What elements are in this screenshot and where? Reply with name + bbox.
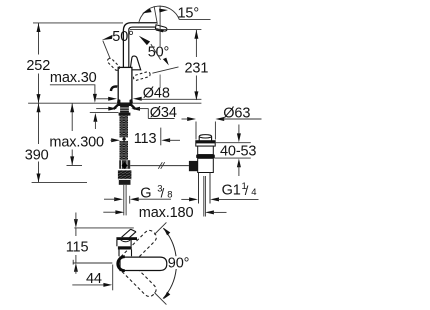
wire: outlet axis line segment (159, 75, 161, 89)
supply pipe G3/8 tail (124, 185, 126, 216)
arrowhead G114 pointing right at drain pipe left wall (189, 197, 198, 201)
svg-text:max.180: max.180 (139, 205, 194, 221)
arrowhead max180 right pointing left at drain pipe (205, 210, 214, 214)
wire: 231 top extension under spout outlet (130, 28, 201, 30)
wire: max300 bottom tick (67, 165, 83, 167)
wire: spout outer contour (123, 23, 157, 68)
wire: G114 underline (217, 198, 258, 200)
arrowhead 44 pointing right (103, 283, 112, 287)
wire: O63 extension lines (196, 122, 215, 140)
svg-text:max.30: max.30 (50, 70, 97, 86)
svg-text:Ø63: Ø63 (223, 105, 250, 121)
counter bottom line (90, 111, 119, 113)
spout tip / aerator (155, 25, 167, 31)
arrowhead at pipe left pointing right (114, 197, 123, 201)
svg-text:40-53: 40-53 (220, 143, 256, 159)
wire: 390 bottom extension line (32, 181, 87, 183)
arrowhead 50deg left (102, 35, 113, 40)
svg-text:252: 252 (26, 58, 50, 74)
lever handle solid (130, 56, 141, 70)
arrowhead max30 opposing up at counter bottom (93, 113, 97, 122)
drain tailpipe inner lines (204, 176, 206, 217)
arrowhead 252 top (37, 23, 41, 32)
dimension max.180 (103, 211, 117, 213)
wire: 113 extension tick (160, 128, 162, 146)
dashed lever right 50deg position (133, 71, 151, 81)
svg-text:4: 4 (251, 187, 256, 198)
svg-text:G1: G1 (222, 183, 241, 199)
wire: horizontal pop-up pull rod to drain (130, 165, 189, 167)
wire: O34 left arrow tail (96, 108, 110, 110)
plan handle: dome (117, 240, 131, 246)
arrowhead arc top (164, 228, 171, 236)
arrowhead G38 pointing left at pipe (130, 197, 139, 201)
drain side port for pull rod (189, 161, 198, 171)
arrowhead max300 bottom (70, 156, 74, 165)
wire: O34 label bracket vertical (147, 108, 149, 118)
wire: 252 top extension line (33, 22, 123, 24)
plan handle: lower black bar (118, 246, 132, 249)
wire: dashed spout axis extension bottom (154, 293, 166, 305)
pull rod break symbol (158, 162, 164, 169)
svg-text:44: 44 (86, 271, 102, 287)
wire: max30 leader underline and down bend (50, 85, 95, 95)
svg-text:50°: 50° (112, 29, 133, 45)
rod gap diamond (122, 137, 126, 141)
svg-text:90°: 90° (168, 255, 189, 271)
svg-text:113: 113 (134, 131, 157, 147)
threaded rod upper section (120, 116, 129, 138)
arrowhead O63 right (215, 117, 224, 121)
arrowhead 231 bottom (194, 91, 198, 100)
arrowhead 390 bottom (37, 174, 41, 183)
dimension 231 vertical line (195, 30, 197, 100)
escutcheon plate below base (118, 103, 132, 106)
wire: O48 underline extending to 231 (140, 98, 201, 100)
wire: spout inner contour (129, 27, 156, 67)
wire: 115 top extension from handle (74, 227, 134, 229)
svg-text:Ø48: Ø48 (143, 86, 170, 102)
arrowhead O63 left (187, 117, 196, 121)
arrowhead 50deg right lower (163, 58, 169, 66)
arrowhead 231 top (194, 30, 198, 39)
wire: short tick right of pipe (129, 196, 131, 204)
wire: max30 opposing arrow tail (94, 121, 96, 130)
faucet body (118, 67, 132, 103)
plan handle: base sides (119, 250, 132, 257)
dimension 113: right arrow pointing left at tick (161, 138, 170, 142)
arrowhead arc bottom (164, 292, 171, 300)
node: 15 deg vertical reference line (159, 6, 161, 47)
nut bottom flange (119, 113, 131, 116)
arrowhead 40-53 upper pointing down (237, 133, 241, 142)
svg-text:/: / (245, 183, 249, 198)
drain body (198, 158, 214, 172)
plan handle: lever diagonal (122, 229, 136, 240)
node: 15 deg tilted reference line (154, 6, 157, 24)
wire: 15 deg swivel arc (139, 6, 180, 23)
dashed spout upper 45deg (121, 228, 159, 266)
svg-text:8: 8 (167, 190, 172, 201)
drain o-ring seal band (196, 154, 215, 158)
spout tip dark underside (156, 29, 163, 31)
arrowhead max300 top (70, 103, 74, 112)
svg-text:15°: 15° (178, 6, 199, 22)
wire: leader 50deg left to dashed lever (103, 41, 111, 59)
drain flange with dark top (196, 141, 215, 146)
drain plug cap (199, 136, 211, 140)
faucet base flare feet (117, 99, 120, 104)
wire: dashed spout axis extension top (154, 222, 166, 234)
svg-text:115: 115 (66, 240, 89, 256)
wire: O63 underline below label (223, 118, 262, 120)
pop-up rod knob behind body (111, 86, 117, 91)
wire: G38 underline (137, 198, 171, 200)
label G1 1/4 with leader arrows (181, 198, 191, 200)
arrowhead G114 pointing left at drain pipe right wall (210, 197, 219, 201)
wire: leader from arc to 15 deg label (179, 19, 210, 21)
svg-text:max.300: max.300 (49, 135, 104, 151)
svg-text:231: 231 (185, 61, 209, 77)
wire: leader 50deg right upper (151, 44, 161, 60)
arrowhead 115 bottom pointing up (74, 263, 78, 272)
plan body left crescent dark (118, 257, 125, 271)
arrowhead 50deg right upper (139, 36, 150, 45)
svg-text:G: G (140, 186, 151, 202)
wire: 44 right extension vertical (112, 265, 114, 291)
arrowhead max180 left pointing right at faucet pipe (115, 210, 124, 214)
svg-text:/: / (161, 186, 165, 201)
plan spout barrel pointing right (120, 257, 167, 270)
horseshoe washer diagonal right (129, 103, 135, 109)
dimension 252 vertical line (38, 23, 40, 103)
wire: O34 label underline (148, 118, 174, 120)
drain tailpipe walls (199, 173, 211, 204)
arrowhead O34 left (108, 107, 117, 111)
svg-text:390: 390 (25, 147, 49, 163)
dimension max.300 vertical line (71, 103, 73, 165)
arrowhead 252 bottom (37, 94, 41, 103)
wire: small tick at left end (72, 260, 74, 265)
horseshoe washer diagonal left (114, 103, 120, 109)
arrowhead O34 right (131, 107, 140, 111)
drain neck (198, 146, 214, 155)
mounting nut dark block (120, 106, 129, 113)
dashed lever left 50deg position (106, 57, 120, 71)
arrowhead O48 left (108, 97, 117, 101)
threaded rod lower section (120, 141, 129, 160)
wire: 40-53 lower extension (214, 157, 251, 159)
90deg swivel arc lower segment (163, 269, 176, 299)
arrowhead 40-53 lower pointing up (237, 159, 241, 168)
supply hose connector blocks (118, 170, 131, 179)
arrowhead right of 15 deg gap (159, 9, 168, 13)
arrowhead O48 right (133, 97, 142, 101)
counter top line (28, 102, 201, 104)
wire: O48 dimension line left segment (96, 98, 110, 100)
dashed spout lower 45deg (120, 261, 158, 299)
arrowhead left of 15 deg gap (142, 9, 152, 14)
wire: 40-53 upper extension (215, 142, 251, 144)
dimension O63 line (182, 118, 191, 120)
arrowhead 115 top pointing down (74, 219, 78, 228)
arrowhead 390 top (37, 103, 41, 112)
dimension 390 vertical line (38, 103, 40, 182)
dimension 44 (72, 284, 104, 286)
wire: leader along dashed lever axis (152, 67, 178, 73)
dimension 40-53 (238, 125, 240, 136)
dimension 113: left arrow (111, 138, 120, 142)
dimension 115 vertical (75, 228, 77, 263)
plan handle: black bar (116, 237, 137, 240)
coupler joint diamond (122, 162, 128, 169)
arrowhead max30 down to counter top (93, 94, 97, 103)
90deg swivel arc upper segment (163, 228, 176, 256)
svg-text:Ø34: Ø34 (150, 105, 177, 121)
pull rod coupler on faucet (119, 160, 130, 169)
wire: O34 right tail to label bracket (139, 108, 149, 110)
wire: spout centerline extension (73, 262, 112, 264)
